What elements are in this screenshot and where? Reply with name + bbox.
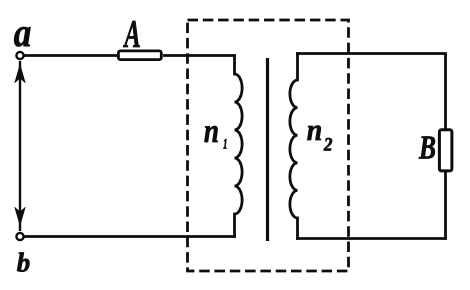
node a <box>16 52 23 59</box>
transformer core <box>266 58 269 241</box>
svg-text:b: b <box>17 248 31 278</box>
svg-text:1: 1 <box>223 135 228 152</box>
wire: top-left from node a to ammeter A <box>23 54 118 57</box>
primary coil n1 <box>235 54 243 238</box>
svg-text:a: a <box>14 11 32 56</box>
wire: from A into transformer box to primary coil <box>163 54 236 57</box>
svg-text:n: n <box>307 114 323 148</box>
arrowhead up (toward a) <box>14 64 26 84</box>
wire: bottom-left from primary coil to node b <box>23 235 236 238</box>
secondary coil n2 <box>290 52 298 240</box>
svg-text:A: A <box>123 13 141 56</box>
arrowhead down (toward b) <box>14 207 26 227</box>
label n1 <box>204 112 228 152</box>
svg-text:B: B <box>418 129 436 166</box>
wire: below B down to bottom-right corner <box>444 171 447 240</box>
wire: secondary top to right side <box>296 52 447 55</box>
voltage arrow between a and b (shaft) <box>19 61 21 231</box>
wire: bottom-right from corner to secondary coil <box>296 237 447 240</box>
wire: right side down to component B <box>444 54 447 131</box>
transformer dashed enclosure <box>188 20 349 271</box>
label n2 <box>307 114 333 155</box>
svg-text:2: 2 <box>323 134 333 155</box>
component A (box) <box>118 51 161 60</box>
svg-text:n: n <box>204 112 219 150</box>
component B (box) <box>439 130 452 171</box>
node b <box>16 233 23 240</box>
